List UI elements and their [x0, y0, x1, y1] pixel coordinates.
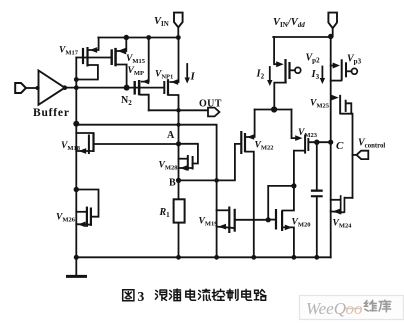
- wire VM17 drain to rail: [89, 38, 99, 51]
- wire I3 drain arrow lead: [331, 65, 334, 67]
- caption char 图: [123, 290, 134, 301]
- caption char 电 (second): [242, 289, 252, 300]
- watermark char 库: [379, 300, 391, 312]
- transistor VMP: [134, 79, 150, 96]
- svg-text:WeeQ: WeeQ: [306, 299, 346, 318]
- ground rail: [76, 256, 330, 258]
- wire VM23 to node C: [309, 141, 331, 143]
- current arrow I3: [320, 67, 325, 85]
- wire VM20 gate column: [268, 186, 294, 220]
- wire VM26 source arrow lead: [76, 223, 90, 225]
- wire VNP1 source down trunk to node B: [169, 95, 178, 180]
- svg-text:3: 3: [138, 289, 145, 304]
- svg-text:A: A: [167, 130, 175, 141]
- top rail right (VIN/Vdd): [273, 36, 331, 38]
- wire VIN/Vdd pentagon stem: [332, 29, 334, 37]
- wire left trunk x=76 (buffer node down to ground): [75, 58, 77, 259]
- transistor VM17: [82, 47, 97, 67]
- wire VM19 gate stub: [217, 209, 229, 211]
- wire buffer input: [25, 87, 39, 89]
- wire R1 bottom lead: [178, 223, 180, 258]
- wire Y node horizontal: [255, 109, 292, 111]
- current arrow I2: [267, 67, 272, 86]
- port input (left): [15, 83, 26, 93]
- wire VM17/VM15 common gate line: [76, 57, 111, 59]
- wire VM23 drain branch: [292, 110, 296, 139]
- wire VM24 gate stub: [331, 199, 340, 201]
- transistor VNP1: [163, 79, 178, 96]
- wire VM17 source loop to buffer node: [76, 65, 98, 80]
- wire VM20 drain lead: [283, 186, 294, 211]
- wire VM26 gate stub: [76, 211, 86, 213]
- caption char 电: [186, 289, 196, 300]
- svg-text:I: I: [190, 71, 196, 83]
- wire buffer output / node N2 line: [65, 87, 164, 89]
- wire VM19 drain lead to VM20 gate node: [235, 219, 268, 221]
- wire VM15 drain to rail: [117, 38, 126, 52]
- transistor VM19: [218, 207, 236, 234]
- transistor I3 (PMOS with bubble): [333, 59, 358, 81]
- transistor VM22: [240, 131, 254, 154]
- wire I2 source to Y node: [274, 83, 286, 110]
- port Vcontrol: [356, 151, 368, 159]
- wire VM28 drain loop from A: [179, 144, 198, 164]
- wire VM24 source arrow lead: [331, 210, 344, 213]
- svg-text:B: B: [169, 178, 176, 189]
- wire Vcontrol tap: [353, 154, 357, 156]
- transistor VM20: [275, 209, 292, 231]
- watermark box: [300, 296, 404, 320]
- wire VM24 drain lead: [345, 197, 352, 199]
- wire VM23 source down to VM20 node: [294, 151, 304, 186]
- wire I2 branch from right rail: [274, 37, 276, 64]
- transistor VM26: [78, 207, 92, 228]
- current arrow I (near VNP1): [185, 64, 190, 84]
- wire VIN pentagon stem: [177, 28, 179, 38]
- supply symbol VIN: [174, 13, 183, 28]
- transistor VM18: [79, 133, 95, 155]
- svg-text:C: C: [336, 140, 344, 152]
- wire VM28 gate stub: [179, 158, 188, 160]
- wire VM15 source down to N2: [117, 65, 127, 88]
- wire VM19 source arrow lead: [217, 227, 234, 228]
- wire VM25 source lead down right trunk: [341, 114, 353, 198]
- caption char 制: [227, 289, 239, 300]
- transistor VM23: [295, 135, 309, 154]
- svg-text:Buffer: Buffer: [33, 107, 70, 119]
- wire node B to VM22 gate: [179, 144, 241, 181]
- resistor R1: [174, 199, 185, 222]
- wire VM20 gate stub: [268, 219, 275, 221]
- caption char 浪: [155, 290, 166, 300]
- transistor VM24: [333, 195, 346, 214]
- svg-text:OUT: OUT: [199, 99, 222, 110]
- port OUT: [208, 108, 219, 117]
- supply symbol VIN/Vdd: [328, 13, 337, 29]
- wire VNP1 drain to rail: [170, 38, 178, 83]
- wire VM22 source to ground: [245, 152, 254, 258]
- transistor VM15: [111, 48, 127, 67]
- wire I3 source lead: [331, 80, 342, 82]
- wire VM28 source arrow lead: [179, 167, 193, 169]
- watermark char 维: [365, 300, 377, 311]
- wire right trunk x=330.7 (rail to ground corner): [330, 36, 332, 257]
- caption char 路: [254, 290, 266, 301]
- caption char 控: [212, 289, 224, 300]
- caption char 流: [198, 289, 210, 300]
- transistor VM28: [180, 155, 194, 171]
- wire R1 top lead: [178, 180, 180, 199]
- wire VM18 source arrow lead: [76, 150, 93, 152]
- wire VMP source down to OUT line: [141, 95, 149, 111]
- wire VM22 drain branch: [247, 110, 255, 138]
- wire capacitor bottom lead: [316, 197, 318, 257]
- caption char 涌: [169, 289, 180, 301]
- wire OUT line: [149, 109, 208, 111]
- ground: [75, 257, 77, 275]
- wire VM26 diode loop: [76, 190, 98, 217]
- wire long horizontal at y=125 to VM19 column: [76, 125, 216, 258]
- transistor I2 (PMOS with bubble): [276, 59, 300, 83]
- wire VM18 drain lead: [76, 132, 93, 134]
- wire VM18 gate to node A: [95, 143, 179, 145]
- wire capacitor top lead: [316, 142, 318, 189]
- wire top rail left (VIN): [98, 37, 179, 39]
- wire VM25 gate loop: [346, 103, 351, 113]
- capacitor C1 plates: [311, 190, 323, 192]
- transistor VM25: [331, 95, 346, 115]
- buffer U1 triangle: [39, 71, 65, 105]
- wire VMP drain to rail: [142, 38, 149, 82]
- wire VM20 source to ground: [284, 227, 294, 257]
